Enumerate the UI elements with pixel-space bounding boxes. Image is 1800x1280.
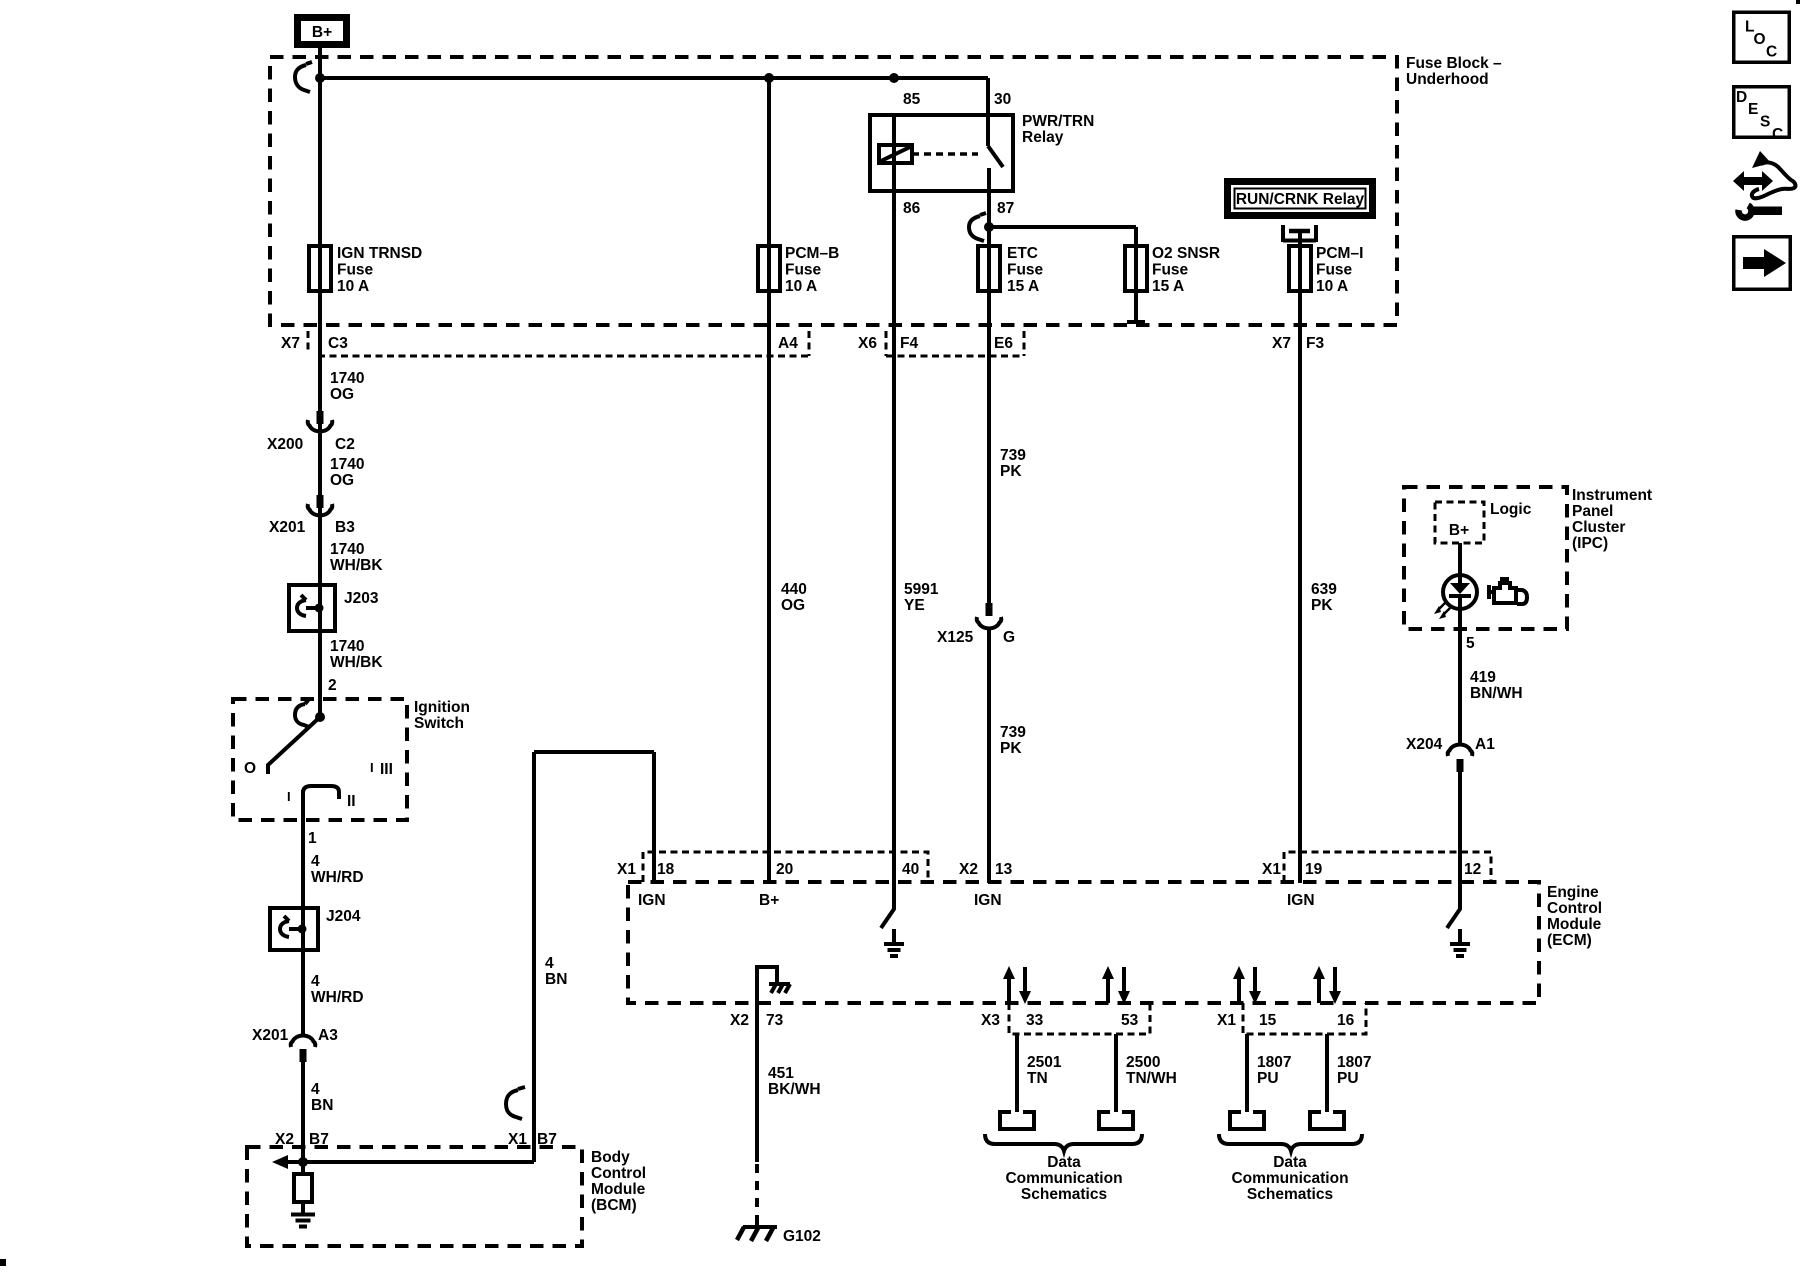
svg-text:G102: G102 — [783, 1228, 821, 1245]
svg-text:2500: 2500 — [1126, 1054, 1160, 1071]
svg-text:PWR/TRN: PWR/TRN — [1022, 113, 1094, 130]
svg-text:X7: X7 — [1272, 335, 1291, 352]
svg-text:10 A: 10 A — [1316, 278, 1348, 295]
svg-text:Engine: Engine — [1547, 884, 1599, 901]
svg-text:Schematics: Schematics — [1247, 1186, 1333, 1203]
svg-text:YE: YE — [904, 597, 925, 614]
svg-text:X6: X6 — [858, 335, 877, 352]
svg-text:Fuse: Fuse — [1007, 262, 1044, 279]
svg-text:Switch: Switch — [414, 715, 464, 732]
svg-text:RUN/CRNK Relay: RUN/CRNK Relay — [1236, 191, 1365, 208]
svg-text:B+: B+ — [312, 24, 332, 41]
svg-text:BN/WH: BN/WH — [1470, 685, 1523, 702]
svg-text:12: 12 — [1464, 861, 1481, 878]
svg-text:Module: Module — [591, 1181, 646, 1198]
svg-text:X125: X125 — [937, 629, 974, 646]
svg-text:WH/BK: WH/BK — [330, 557, 383, 574]
svg-text:X1: X1 — [508, 1131, 527, 1148]
svg-text:O2 SNSR: O2 SNSR — [1152, 245, 1220, 262]
svg-text:B+: B+ — [759, 892, 779, 909]
svg-text:C2: C2 — [335, 436, 355, 453]
svg-text:WH/RD: WH/RD — [311, 869, 364, 886]
svg-text:WH/RD: WH/RD — [311, 989, 364, 1006]
svg-text:Underhood: Underhood — [1406, 71, 1489, 88]
svg-text:Panel: Panel — [1572, 503, 1613, 520]
svg-text:C3: C3 — [328, 335, 348, 352]
svg-text:13: 13 — [995, 861, 1013, 878]
svg-text:739: 739 — [1000, 724, 1026, 741]
svg-text:F4: F4 — [900, 335, 918, 352]
svg-text:E: E — [1748, 101, 1758, 118]
svg-text:X1: X1 — [617, 861, 636, 878]
svg-text:O: O — [244, 760, 256, 777]
svg-text:PU: PU — [1337, 1070, 1359, 1087]
svg-text:PK: PK — [1311, 597, 1333, 614]
svg-text:S: S — [1760, 114, 1770, 131]
svg-text:40: 40 — [902, 861, 919, 878]
svg-text:1807: 1807 — [1337, 1054, 1371, 1071]
svg-text:ETC: ETC — [1007, 245, 1038, 262]
svg-text:15 A: 15 A — [1152, 278, 1184, 295]
svg-text:Schematics: Schematics — [1021, 1186, 1107, 1203]
svg-text:IGN: IGN — [638, 892, 666, 909]
svg-text:PK: PK — [1000, 740, 1022, 757]
svg-text:B3: B3 — [335, 519, 355, 536]
svg-text:10 A: 10 A — [337, 278, 369, 295]
svg-text:739: 739 — [1000, 447, 1026, 464]
svg-text:Ignition: Ignition — [414, 699, 470, 716]
svg-text:BN: BN — [311, 1097, 333, 1114]
svg-text:19: 19 — [1305, 861, 1323, 878]
svg-text:TN/WH: TN/WH — [1126, 1070, 1177, 1087]
svg-text:Control: Control — [1547, 900, 1602, 917]
svg-text:X201: X201 — [252, 1027, 289, 1044]
svg-text:PK: PK — [1000, 463, 1022, 480]
svg-text:15 A: 15 A — [1007, 278, 1039, 295]
svg-text:OG: OG — [330, 386, 354, 403]
svg-text:OG: OG — [781, 597, 805, 614]
svg-text:A3: A3 — [318, 1027, 338, 1044]
svg-text:PCM–B: PCM–B — [785, 245, 839, 262]
svg-text:1740: 1740 — [330, 541, 364, 558]
svg-text:X200: X200 — [267, 436, 303, 453]
svg-text:Fuse: Fuse — [337, 262, 374, 279]
svg-text:X204: X204 — [1406, 736, 1443, 753]
svg-text:Communication: Communication — [1005, 1170, 1122, 1187]
svg-text:73: 73 — [766, 1012, 784, 1029]
svg-text:440: 440 — [781, 581, 807, 598]
svg-text:30: 30 — [994, 91, 1011, 108]
svg-text:451: 451 — [768, 1065, 794, 1082]
svg-text:4: 4 — [545, 955, 554, 972]
svg-text:15: 15 — [1259, 1012, 1277, 1029]
svg-text:BN: BN — [545, 971, 567, 988]
svg-text:Fuse: Fuse — [1316, 262, 1353, 279]
svg-text:639: 639 — [1311, 581, 1337, 598]
svg-text:Fuse: Fuse — [785, 262, 822, 279]
svg-text:33: 33 — [1026, 1012, 1044, 1029]
svg-text:X1: X1 — [1262, 861, 1281, 878]
svg-text:Communication: Communication — [1231, 1170, 1348, 1187]
svg-text:X1: X1 — [1217, 1012, 1236, 1029]
svg-text:B7: B7 — [537, 1131, 557, 1148]
svg-text:X3: X3 — [981, 1012, 1000, 1029]
svg-text:I: I — [370, 760, 374, 775]
svg-text:O: O — [1754, 31, 1766, 48]
svg-text:A4: A4 — [778, 335, 798, 352]
svg-text:2501: 2501 — [1027, 1054, 1062, 1071]
svg-text:Module: Module — [1547, 916, 1602, 933]
svg-text:4: 4 — [311, 853, 320, 870]
svg-text:10 A: 10 A — [785, 278, 817, 295]
svg-text:(ECM): (ECM) — [1547, 932, 1592, 949]
svg-text:(IPC): (IPC) — [1572, 535, 1608, 552]
svg-text:18: 18 — [657, 861, 675, 878]
svg-text:20: 20 — [776, 861, 793, 878]
svg-text:5: 5 — [1466, 635, 1475, 652]
svg-text:II: II — [347, 793, 356, 810]
svg-text:1740: 1740 — [330, 370, 364, 387]
svg-text:BK/WH: BK/WH — [768, 1081, 821, 1098]
svg-text:C: C — [1766, 44, 1777, 61]
svg-text:X201: X201 — [269, 519, 306, 536]
svg-text:X2: X2 — [730, 1012, 749, 1029]
svg-text:WH/BK: WH/BK — [330, 654, 383, 671]
svg-text:J204: J204 — [326, 908, 361, 925]
svg-text:E6: E6 — [994, 335, 1013, 352]
svg-text:PU: PU — [1257, 1070, 1279, 1087]
svg-text:G: G — [1003, 629, 1015, 646]
svg-text:X2: X2 — [959, 861, 978, 878]
svg-text:1740: 1740 — [330, 456, 364, 473]
svg-text:1740: 1740 — [330, 638, 364, 655]
svg-text:Body: Body — [591, 1149, 630, 1166]
svg-text:Logic: Logic — [1490, 501, 1532, 518]
svg-text:1807: 1807 — [1257, 1054, 1291, 1071]
svg-text:B+: B+ — [1449, 522, 1469, 539]
svg-text:D: D — [1736, 89, 1747, 106]
svg-text:IGN: IGN — [974, 892, 1002, 909]
svg-text:5991: 5991 — [904, 581, 939, 598]
svg-text:A1: A1 — [1475, 736, 1495, 753]
svg-text:1: 1 — [308, 830, 317, 847]
svg-text:X7: X7 — [281, 335, 300, 352]
svg-text:IGN TRNSD: IGN TRNSD — [337, 245, 422, 262]
svg-text:Relay: Relay — [1022, 129, 1064, 146]
svg-text:85: 85 — [903, 91, 921, 108]
svg-text:C: C — [1772, 126, 1783, 143]
svg-text:F3: F3 — [1306, 335, 1324, 352]
svg-text:PCM–I: PCM–I — [1316, 245, 1363, 262]
svg-text:I: I — [287, 789, 291, 804]
svg-text:III: III — [380, 761, 393, 778]
svg-text:Instrument: Instrument — [1572, 487, 1652, 504]
svg-text:4: 4 — [311, 973, 320, 990]
svg-text:419: 419 — [1470, 669, 1496, 686]
svg-text:86: 86 — [903, 200, 921, 217]
svg-text:Data: Data — [1047, 1154, 1081, 1171]
svg-text:Fuse Block –: Fuse Block – — [1406, 55, 1502, 72]
svg-text:Data: Data — [1273, 1154, 1307, 1171]
svg-text:2: 2 — [328, 677, 337, 694]
svg-text:53: 53 — [1121, 1012, 1139, 1029]
svg-text:16: 16 — [1337, 1012, 1355, 1029]
svg-text:87: 87 — [997, 200, 1014, 217]
svg-text:Cluster: Cluster — [1572, 519, 1625, 536]
svg-text:Control: Control — [591, 1165, 646, 1182]
svg-text:J203: J203 — [344, 590, 379, 607]
svg-text:TN: TN — [1027, 1070, 1048, 1087]
svg-text:IGN: IGN — [1287, 892, 1315, 909]
svg-text:Fuse: Fuse — [1152, 262, 1189, 279]
svg-text:4: 4 — [311, 1081, 320, 1098]
svg-text:OG: OG — [330, 472, 354, 489]
svg-text:(BCM): (BCM) — [591, 1197, 637, 1214]
